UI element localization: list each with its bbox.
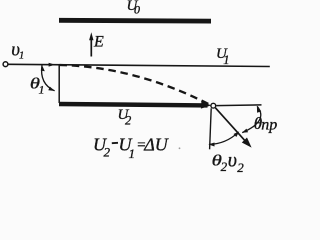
svg-text:2: 2	[125, 114, 131, 128]
svg-text:2: 2	[237, 160, 244, 175]
exit circle	[211, 103, 216, 108]
svg-text:1: 1	[39, 82, 45, 96]
normal line below exit circle	[210, 108, 212, 149]
dashed trajectory	[60, 65, 211, 105]
svg-text:0: 0	[134, 3, 140, 17]
trajectory arrowhead	[201, 101, 211, 108]
v2 velocity arrow	[215, 108, 246, 142]
svg-text:Δ: Δ	[143, 135, 155, 155]
svg-text:2: 2	[104, 145, 111, 160]
line U1	[8, 64, 270, 66]
line right of exit circle	[216, 104, 261, 107]
source circle	[3, 62, 8, 67]
E field arrow	[90, 39, 92, 57]
svg-text:1: 1	[223, 53, 229, 67]
svg-text:υ: υ	[228, 149, 237, 171]
theta2 angle arc	[209, 132, 238, 144]
arrowhead on U1 line	[49, 63, 56, 67]
lower plate U2	[59, 102, 208, 108]
theta1 angle arc	[42, 65, 55, 91]
svg-text:2: 2	[221, 159, 228, 174]
svg-text:1: 1	[129, 146, 136, 161]
boundary vertical line	[58, 65, 60, 103]
svg-text:U: U	[155, 135, 169, 155]
faint period after formula	[179, 147, 181, 149]
top plate U0	[59, 18, 211, 24]
svg-text:пр: пр	[261, 117, 277, 134]
svg-text:E: E	[93, 34, 104, 51]
svg-text:1: 1	[19, 50, 24, 61]
theta_pr angle arc	[242, 106, 261, 132]
